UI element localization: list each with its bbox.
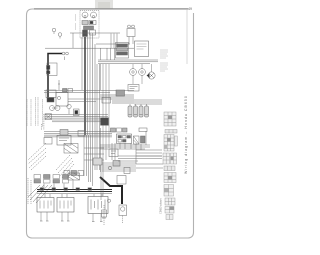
connector table C7 — [164, 173, 176, 183]
wire — [118, 156, 162, 161]
starter motor — [119, 205, 127, 216]
wire risers resistor row to bus — [44, 181, 73, 190]
row of small connectors — [64, 171, 70, 176]
left legend label col1 — [26, 99, 28, 126]
wire drops to battery cable — [101, 172, 103, 200]
connector — [102, 98, 111, 104]
connector table C8 — [164, 185, 174, 197]
connector table C4 — [163, 153, 170, 164]
wire — [72, 33, 74, 48]
handlebar switch box left — [44, 138, 52, 145]
lower horizontal bundle to connectors — [100, 163, 136, 171]
two-pin connector — [128, 25, 131, 28]
turn signal relay (hatched) — [64, 144, 78, 154]
wire — [58, 80, 60, 90]
wire — [130, 104, 147, 106]
wire — [42, 114, 44, 130]
junction connector — [63, 89, 68, 93]
horn lead wire — [48, 54, 62, 98]
ignition relay — [47, 98, 54, 103]
wire right to pin strip — [136, 150, 163, 168]
pilot lamp — [130, 69, 137, 76]
fuse holder stack — [116, 43, 129, 59]
left legend label col4 — [37, 97, 39, 126]
horn — [47, 63, 57, 76]
dimmer switch box — [128, 85, 139, 92]
regulator box — [37, 198, 54, 213]
harness drop from cluster — [84, 37, 86, 135]
battery box — [88, 197, 108, 214]
tachometer bulb — [82, 12, 88, 18]
headlamp — [148, 72, 155, 79]
main lower bus (thick) — [37, 189, 112, 191]
wire — [68, 99, 100, 102]
svg-text:Wiring diagram – Honda CB650: Wiring diagram – Honda CB650 — [184, 95, 188, 174]
connector table C10 — [165, 207, 174, 214]
brake switch body — [46, 90, 56, 98]
connector — [78, 131, 85, 137]
left legend label col2 — [30, 99, 32, 126]
rectifier hatched box — [68, 173, 80, 180]
ignition coil 1 — [128, 106, 132, 117]
connector row above fuse panel — [111, 128, 116, 132]
starter button — [50, 106, 55, 111]
cluster label text — [75, 14, 77, 30]
wire — [81, 37, 83, 90]
left legend label col3 — [35, 97, 37, 126]
note text block — [160, 50, 168, 71]
flasher relay — [74, 109, 80, 116]
ignition coil 3 — [139, 106, 143, 117]
speedometer bulb — [91, 12, 97, 18]
connector pin-table strip — [163, 112, 177, 220]
harness wire — [92, 33, 94, 135]
wires below boxes — [41, 212, 101, 222]
connector table C9 — [165, 198, 175, 205]
side stand switch — [109, 149, 118, 157]
wire links mid-right — [100, 145, 150, 149]
ignition coil 4 — [145, 106, 149, 117]
page outline — [27, 9, 194, 238]
diagonal dashed leads lower-left fan1 — [28, 143, 46, 160]
ignition coil 2 — [134, 106, 138, 117]
meter lamp bulb — [58, 33, 62, 37]
wire — [101, 48, 115, 60]
connector table C1 — [164, 112, 176, 126]
diagram frame top rule — [34, 8, 188, 10]
instrument cluster box — [80, 11, 99, 39]
junction lugs on bus — [40, 188, 44, 191]
diagonal leads from resistor row — [28, 185, 40, 197]
circle component — [108, 166, 112, 170]
cluster connector — [84, 26, 94, 30]
cross links — [84, 148, 104, 160]
starter cable box — [117, 176, 126, 185]
wire — [133, 64, 152, 72]
kill switch — [67, 104, 71, 108]
wire — [97, 64, 100, 130]
ignition switch box — [135, 41, 149, 57]
dashed wires far left — [28, 178, 31, 204]
svg-text:CB650 colours: CB650 colours — [159, 198, 162, 214]
diagram frame right faint edge — [186, 9, 188, 64]
diagonal dashed leads fan2 — [56, 155, 70, 170]
fuse panel — [117, 134, 132, 144]
indicator lamp block — [82, 21, 88, 25]
harness wire — [94, 44, 96, 135]
starter relay hatched — [134, 136, 140, 144]
wire — [122, 216, 124, 224]
connector — [113, 161, 120, 167]
connector — [60, 130, 68, 136]
wire verticals right of harness — [101, 128, 147, 172]
wire — [133, 76, 142, 85]
ghost show-through blob above page top — [95, 0, 113, 9]
front brake switch box — [56, 93, 68, 107]
harness wire — [87, 37, 89, 135]
terminal circle — [107, 199, 110, 202]
wire — [103, 205, 105, 225]
connector box — [93, 158, 102, 165]
bus wire y44 — [96, 43, 130, 45]
connector block — [45, 114, 52, 120]
left legend label col5 — [42, 99, 44, 127]
rectifier box — [57, 198, 74, 213]
horn terminal pair — [62, 52, 65, 55]
bus bundle y113-122 — [45, 115, 108, 122]
connector table C6 — [164, 166, 175, 171]
connector — [124, 168, 130, 174]
trip sensor bulb — [52, 28, 56, 32]
bus wire y48 — [45, 47, 134, 49]
connector table C5 — [171, 153, 177, 164]
bus pair y90-92 — [44, 91, 134, 93]
wire bus to boxes — [45, 194, 102, 198]
left switch housing box — [57, 136, 71, 146]
bus wire y33 — [70, 32, 120, 34]
tail lamp — [139, 69, 146, 76]
wire drops center — [101, 64, 110, 160]
connector — [116, 90, 125, 96]
ignition coil left — [101, 118, 109, 126]
connector table C11 — [166, 215, 173, 220]
thick battery cable — [100, 177, 122, 204]
resistor pack row — [34, 175, 69, 184]
svg-text:49: 49 — [188, 7, 192, 11]
connector table C3 — [164, 135, 174, 152]
fuse link — [102, 210, 107, 217]
harness bundle center lower — [84, 130, 100, 186]
wire to pin board — [134, 100, 162, 104]
bundle from cluster area y90-103 to right — [100, 95, 134, 103]
main bus lines y60-64 — [98, 60, 158, 64]
wire risers top right — [111, 34, 117, 49]
bus bundle y131-137 — [44, 132, 112, 137]
harness wire — [89, 33, 91, 135]
connector table C2 — [165, 130, 177, 134]
